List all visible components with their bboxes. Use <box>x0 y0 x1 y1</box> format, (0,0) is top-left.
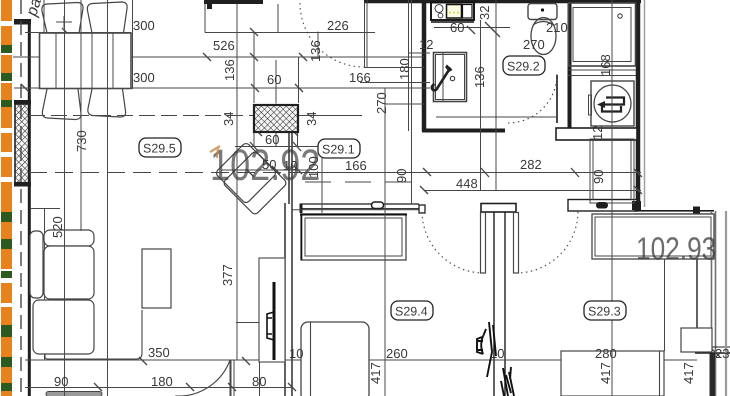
room label S29.5 <box>139 138 181 157</box>
svg-text:350: 350 <box>148 345 170 360</box>
grid vertical x132 <box>132 0 134 89</box>
svg-text:S29.5: S29.5 <box>143 142 176 156</box>
kitchen horizontal y67 <box>364 67 424 69</box>
rug outline <box>45 310 142 359</box>
bath door leaf <box>556 75 558 123</box>
shower drain <box>618 14 622 18</box>
svg-text:136: 136 <box>308 40 323 62</box>
svg-text:10: 10 <box>283 158 297 173</box>
svg-text:300: 300 <box>133 70 155 85</box>
wall top segment A <box>204 0 263 4</box>
wall top segment B kitchen-bath <box>364 0 641 3</box>
wall cap left of corridor wall <box>300 204 303 214</box>
wall stub top-left <box>14 19 31 25</box>
table placemat lines <box>55 33 57 89</box>
door bottom living arc <box>175 360 230 396</box>
svg-text:S29.4: S29.4 <box>395 305 428 319</box>
svg-text:34: 34 <box>304 112 319 126</box>
dim line y173 corridor dashed left <box>29 172 300 174</box>
bathroom floor line y117 <box>436 116 556 118</box>
shower tray <box>569 3 636 66</box>
entrance nook rect <box>590 139 634 203</box>
bathroom vanity <box>434 53 467 102</box>
dim line bottom y361 <box>25 359 697 361</box>
svg-text:417: 417 <box>368 362 383 384</box>
svg-text:23: 23 <box>715 346 729 361</box>
dim line y173 corridor <box>300 172 641 174</box>
room label S29.2 <box>503 56 545 75</box>
grid vertical x385 <box>384 88 386 396</box>
dim 520 line <box>44 209 46 361</box>
svg-text:417: 417 <box>598 362 613 384</box>
sofa seat 2 <box>33 300 94 354</box>
dim extension x81 <box>80 0 82 231</box>
door S29.3 arc dotted <box>516 211 578 273</box>
threshold oval marker corridor <box>372 202 384 209</box>
cabinet over entrance top <box>556 128 637 140</box>
wall pier between bedroom doors <box>481 204 516 213</box>
svg-text:226: 226 <box>327 18 349 33</box>
washer shelf lines <box>568 69 636 71</box>
svg-text:300: 300 <box>133 18 155 33</box>
svg-text:260: 260 <box>386 346 408 361</box>
svg-text:377: 377 <box>220 264 235 286</box>
wall between S29.4 and S29.3 <box>494 212 505 396</box>
tv cabinet <box>259 258 285 362</box>
bed S29.4 pillow line <box>310 322 312 396</box>
wall left exterior <box>28 21 31 396</box>
svg-text:60: 60 <box>267 72 281 87</box>
svg-text:136: 136 <box>472 66 487 88</box>
svg-text:280: 280 <box>595 346 617 361</box>
sofa back pillow <box>44 230 94 246</box>
column pier hatched hall <box>254 105 298 132</box>
sofa armrest top <box>30 231 43 298</box>
watermark orange serif on 1 <box>210 146 220 158</box>
threshold dark ellipse <box>596 202 608 209</box>
chair top-left <box>42 3 83 34</box>
wall S29.3 right inner <box>696 212 698 330</box>
kitchen fridge lines <box>408 0 410 131</box>
svg-text:526: 526 <box>213 38 235 53</box>
svg-text:730: 730 <box>74 130 89 152</box>
svg-text:90: 90 <box>394 169 409 183</box>
section dash line left <box>20 0 22 396</box>
svg-text:90: 90 <box>591 170 606 184</box>
gray outer line top right <box>644 0 646 207</box>
svg-text:210: 210 <box>546 20 568 35</box>
svg-text:270: 270 <box>523 37 545 52</box>
wall A end cap <box>207 0 212 9</box>
dim line bottom y387 <box>25 387 292 389</box>
svg-text:10: 10 <box>289 346 303 361</box>
balcony glazing left <box>43 0 45 33</box>
wall right of shower/washer <box>636 0 641 210</box>
sofa seat 1 <box>44 246 94 299</box>
pier axis verticals <box>275 60 277 104</box>
door jamb cap S29.4 <box>419 205 425 213</box>
dim line y88 full <box>14 87 430 89</box>
shelf above wardrobe <box>292 209 419 211</box>
armchair diamond <box>215 142 288 216</box>
facade strip orange/green <box>1 0 12 396</box>
gray chair blob bottom <box>46 392 102 396</box>
door bottom living leaf <box>230 360 232 396</box>
nightstand S29.3 <box>681 328 712 352</box>
wall horizontal right y210 double <box>634 210 714 212</box>
pier cap bottom <box>14 182 31 187</box>
svg-text:80: 80 <box>252 374 266 389</box>
dim line y32 <box>25 32 131 34</box>
svg-text:50: 50 <box>262 157 276 172</box>
cooktop circles <box>435 5 443 13</box>
grid vertical x107 <box>107 0 109 396</box>
wall corridor bottom double line left part <box>301 204 419 209</box>
svg-text:100: 100 <box>306 156 321 178</box>
wall jog bottom right <box>710 353 716 396</box>
dining table <box>40 33 132 89</box>
grid vertical x496 bathroom <box>495 0 497 191</box>
entrance threshold cabinet <box>568 200 637 212</box>
wall right exterior gray double <box>712 211 716 396</box>
wardrobe S29.3 <box>592 214 714 259</box>
grid lines over furniture <box>56 0 612 396</box>
wardrobe S29.4 <box>301 214 406 260</box>
kitchen wall lines <box>364 2 366 67</box>
dim line y190 corridor <box>425 190 641 192</box>
grid vertical x64 <box>64 0 66 396</box>
coffee table <box>142 249 171 308</box>
svg-text:417: 417 <box>681 362 696 384</box>
grid vertical x612 <box>611 0 613 396</box>
bed S29.3 <box>561 351 664 396</box>
wall between S29.5 and S29.4 <box>285 131 292 396</box>
dim line y170 hall <box>221 169 308 171</box>
svg-text:34: 34 <box>221 112 236 126</box>
kitchen sink <box>447 5 462 19</box>
svg-text:S29.3: S29.3 <box>588 305 621 319</box>
svg-text:90: 90 <box>54 374 68 389</box>
wall ledge at jog <box>695 352 730 354</box>
toilet tank <box>528 4 557 20</box>
dim line y57 <box>13 56 424 58</box>
wall bathroom bottom left segment <box>422 129 505 133</box>
room label S29.4 <box>391 301 433 320</box>
chair top-right <box>87 2 127 33</box>
room label S29.3 <box>584 301 626 320</box>
svg-text:282: 282 <box>520 157 542 172</box>
dim line vertical x237 <box>236 4 238 360</box>
svg-text:12: 12 <box>590 126 605 140</box>
bath door arc dotted <box>508 74 557 123</box>
kitchen counter front lines <box>431 21 474 23</box>
svg-text:166: 166 <box>345 158 367 173</box>
door S29.4 leaf <box>481 213 486 274</box>
svg-text:S29.1: S29.1 <box>322 143 355 157</box>
kitchen sink faucet dots <box>449 12 459 14</box>
hatched wall column left <box>14 19 31 187</box>
room label S29.1 <box>318 139 360 158</box>
door S29.4 arc dotted <box>422 211 484 273</box>
svg-text:60: 60 <box>450 20 464 35</box>
hatched pier <box>15 104 29 183</box>
svg-text:10: 10 <box>490 346 504 361</box>
chair cross mark <box>56 16 72 28</box>
kitchen counter <box>431 3 474 21</box>
tv bracket <box>267 312 274 340</box>
door S29.3 leaf <box>514 213 519 274</box>
dark plant S29.3 <box>501 367 514 396</box>
toilet bowl <box>531 18 556 55</box>
dim extensions top <box>204 4 206 33</box>
chair bottom-right <box>88 89 126 117</box>
entrance nook inner lines <box>592 140 594 200</box>
wall corner piece x634 <box>632 201 641 210</box>
balcony door arc dotted <box>300 3 364 67</box>
wall kitchen/bath divider <box>422 0 427 131</box>
kitchen counter compartment <box>463 5 473 19</box>
bed S29.4 <box>301 322 369 396</box>
svg-text:448: 448 <box>456 176 478 191</box>
dim line y146 hall <box>235 146 331 148</box>
svg-text:180: 180 <box>397 58 412 80</box>
svg-text:12: 12 <box>419 37 433 52</box>
tv dark <box>273 282 276 360</box>
svg-text:270: 270 <box>374 92 389 114</box>
svg-text:180: 180 <box>151 374 173 389</box>
svg-text:168: 168 <box>598 54 613 76</box>
svg-text:136: 136 <box>222 59 237 81</box>
wall bathroom right <box>568 0 572 128</box>
svg-text:S29.2: S29.2 <box>507 60 540 74</box>
gray outer line far right <box>725 211 727 396</box>
kitchen horizontal y81 <box>360 82 430 84</box>
desk chair dark S29.4 <box>477 322 496 377</box>
svg-text:520: 520 <box>50 216 65 238</box>
svg-text:102.93: 102.93 <box>636 231 716 267</box>
svg-text:32: 32 <box>477 6 492 20</box>
svg-text:60: 60 <box>265 132 279 147</box>
washing machine <box>591 81 634 126</box>
vanity faucet <box>432 68 451 91</box>
chair bottom-left <box>42 89 81 120</box>
pier cap top <box>14 100 31 105</box>
wardrobe S29.4 top dark edge <box>300 214 407 216</box>
axis dashed line y115 <box>29 115 253 117</box>
